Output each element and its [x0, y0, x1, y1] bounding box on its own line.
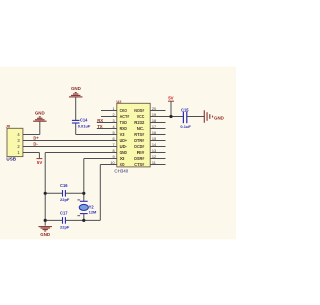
junction XI / crystal top	[82, 192, 85, 195]
U2 right pin numbers 20-11	[152, 107, 156, 165]
U2 pin4 stub / wire TX	[97, 128, 117, 130]
svg-text:22pF: 22pF	[60, 197, 70, 202]
ground symbol GND (bottom)	[38, 227, 52, 237]
svg-text:RTS#: RTS#	[134, 132, 144, 138]
svg-text:7: 7	[112, 143, 114, 147]
ground symbol GND (right of C15)	[204, 110, 224, 123]
svg-text:XO: XO	[120, 162, 125, 168]
wire D+ (USB pin3 to U2 UD+)	[23, 140, 117, 142]
svg-text:5V: 5V	[168, 95, 173, 100]
crystal Y2 12M	[77, 193, 97, 220]
svg-text:NOS#: NOS#	[134, 108, 144, 114]
junction VCC/5V	[169, 115, 172, 118]
svg-text:U2: U2	[116, 99, 122, 104]
svg-text:TXD: TXD	[120, 120, 128, 126]
svg-text:GND: GND	[214, 116, 225, 121]
wire U2 GND pin8 to ground rail	[45, 153, 117, 226]
svg-text:J0: J0	[6, 124, 11, 129]
svg-text:R232: R232	[134, 120, 144, 126]
IC U2 CH340 body	[114, 99, 150, 173]
wire D- (USB pin2 to U2 UD-)	[23, 146, 117, 148]
svg-text:CKO: CKO	[120, 108, 127, 114]
svg-text:NC.: NC.	[137, 126, 145, 132]
svg-text:C17: C17	[60, 211, 68, 216]
svg-text:V3: V3	[120, 132, 125, 138]
power symbol 5V (above VCC wire)	[168, 95, 174, 116]
svg-text:USB: USB	[6, 156, 16, 161]
net label TX	[97, 124, 103, 129]
U2 pin3 stub / wire RX	[97, 122, 117, 124]
wire XO: U2 pin10 down right side	[100, 165, 117, 221]
svg-text:12M: 12M	[89, 209, 97, 214]
capacitor C17	[60, 211, 70, 230]
svg-text:GND: GND	[120, 150, 128, 156]
wire C17 row	[45, 219, 100, 221]
power symbol 5V (below USB)	[36, 159, 42, 165]
svg-text:5: 5	[112, 131, 114, 135]
wire XI: U2 pin9 to crystal node	[84, 159, 117, 194]
svg-text:VCC: VCC	[137, 114, 145, 120]
junction GND rail / C16	[44, 192, 47, 195]
svg-text:6: 6	[112, 137, 114, 141]
svg-text:C16: C16	[60, 183, 68, 188]
svg-text:XI: XI	[120, 156, 126, 162]
wire C14 to U2 V3 pin5	[76, 123, 117, 134]
sheet background band	[0, 67, 236, 240]
net label D-	[33, 141, 38, 146]
svg-text:RX: RX	[97, 118, 103, 123]
svg-text:D+: D+	[33, 135, 39, 140]
svg-text:UD+: UD+	[120, 138, 127, 144]
svg-text:5V: 5V	[37, 160, 42, 165]
net label D+	[33, 135, 39, 140]
capacitor C16	[60, 183, 70, 202]
U2 left pin numbers 1-10	[110, 107, 114, 165]
svg-text:TX: TX	[97, 124, 103, 129]
U2 pin2 stub	[101, 116, 117, 118]
capacitor C15	[180, 107, 191, 129]
svg-text:C15: C15	[181, 107, 189, 112]
svg-text:DSR#: DSR#	[134, 156, 144, 162]
wire C15 to GND	[187, 116, 205, 118]
svg-text:0.1uF: 0.1uF	[180, 124, 191, 129]
svg-text:RI#: RI#	[137, 150, 145, 156]
ground symbol GND (above USB)	[33, 111, 47, 122]
svg-text:DTR#: DTR#	[134, 138, 144, 144]
svg-text:22pF: 22pF	[60, 225, 70, 230]
svg-text:CH340: CH340	[114, 168, 128, 173]
junction GND rail / C17	[44, 219, 47, 222]
connector J0 (USB)	[6, 124, 23, 162]
U2 left pin names	[120, 108, 130, 168]
wire VCC pin19 to C15	[166, 116, 184, 118]
svg-text:DCD#: DCD#	[134, 144, 144, 150]
svg-text:ACT#: ACT#	[120, 114, 130, 120]
wire GND to C14	[75, 97, 77, 120]
wire C16 row	[45, 192, 84, 194]
svg-text:GND: GND	[35, 111, 46, 116]
svg-text:0.01uF: 0.01uF	[78, 123, 91, 128]
capacitor C14	[72, 117, 91, 128]
wire USB pin1 to 5V	[23, 153, 40, 159]
U2 pin1 stub	[101, 110, 117, 112]
svg-text:CTS#: CTS#	[134, 162, 144, 168]
svg-text:GND: GND	[40, 232, 51, 237]
svg-text:RXD: RXD	[120, 126, 128, 132]
U2 right pin stubs 20-11	[150, 111, 165, 165]
U2 right pin names	[134, 108, 145, 168]
crystal pin marks	[77, 199, 80, 201]
net label RX	[97, 118, 103, 123]
svg-text:D-: D-	[33, 141, 38, 146]
junction XO row / crystal bottom	[82, 219, 85, 222]
svg-text:C14: C14	[80, 117, 88, 122]
svg-text:UD-: UD-	[120, 144, 128, 150]
ground symbol GND (above C14)	[69, 86, 83, 97]
wire USB pin4 to GND	[23, 122, 40, 135]
svg-text:GND: GND	[71, 86, 82, 91]
